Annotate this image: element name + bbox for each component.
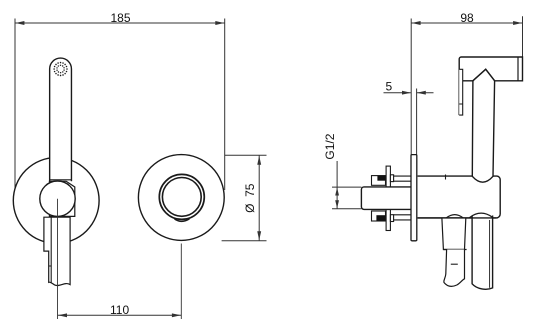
hose tick [451, 263, 458, 265]
svg-text:185: 185 [110, 11, 130, 25]
handle lower dome [469, 213, 492, 218]
mounting flange bar top [386, 166, 390, 188]
lever/body inner line [50, 217, 52, 283]
holder hook bar [459, 69, 463, 115]
side view: valve body [418, 176, 501, 218]
bottom bolt head (black) [376, 215, 385, 221]
hook bar tick [459, 103, 463, 105]
wall bracket plate (front view) [49, 181, 74, 216]
hose with break [444, 250, 465, 287]
G1/2 label and arrows [323, 133, 361, 208]
knob inner ring [162, 178, 201, 217]
dimension 98 (top right) [411, 11, 522, 155]
bottom shaft [394, 215, 412, 220]
front view: hand shower escutcheon circle [13, 158, 99, 244]
svg-text:G1/2: G1/2 [323, 133, 337, 159]
docked handle lower part [472, 216, 493, 290]
holder ball [40, 181, 75, 216]
body bottom line restroke [418, 217, 497, 219]
svg-text:5: 5 [385, 80, 392, 94]
spray face dots [53, 62, 67, 76]
handle joint line [50, 179, 72, 181]
spray head (side view) [459, 57, 522, 115]
top clamp washer [372, 176, 386, 186]
bottom clamp washer [372, 211, 386, 221]
handle lower inner line [489, 220, 491, 288]
dimension O75 [222, 155, 267, 240]
hose connector taper [442, 218, 466, 249]
body joint tick [445, 175, 447, 180]
middle view centerline [180, 244, 182, 320]
svg-text:Ø 75: Ø 75 [243, 183, 257, 213]
top bolt head (black) [377, 176, 385, 181]
hose connector dome [446, 215, 463, 218]
bottom nut [390, 215, 393, 222]
lower handle body with break [44, 217, 70, 285]
middle view: valve escutcheon outer circle [138, 155, 224, 241]
knob outer ring [159, 174, 204, 219]
top nut [390, 175, 393, 182]
knob bottom notch [175, 219, 190, 222]
head peak redraw [473, 69, 495, 81]
top shaft [394, 176, 412, 181]
wall plate (side view) [411, 155, 417, 241]
svg-text:98: 98 [460, 11, 474, 25]
hand shower handle (capsule with spray head) [50, 58, 72, 181]
dimension 110 (bottom) [58, 303, 182, 317]
docked handle (side view) [472, 81, 494, 182]
G1/2 threaded nipple [361, 187, 411, 210]
svg-text:110: 110 [110, 303, 129, 317]
dimension 185 (top left) [15, 11, 225, 199]
head end cap line [517, 57, 519, 81]
front view centerline [57, 199, 59, 319]
mounting flange bar bottom [386, 209, 390, 231]
lever joint tick [49, 265, 52, 267]
dimension 5 (plate thickness) [384, 80, 434, 155]
